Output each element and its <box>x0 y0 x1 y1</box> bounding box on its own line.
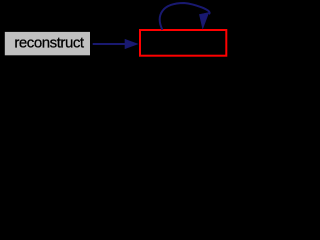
svg-text:reconstruct: reconstruct <box>14 35 85 52</box>
